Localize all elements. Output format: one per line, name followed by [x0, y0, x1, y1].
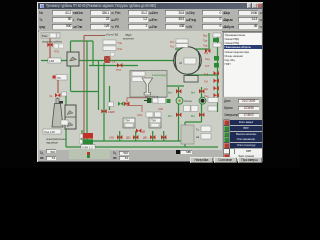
cooling tower — [52, 99, 63, 128]
valve ГПЗ-2 — [117, 63, 122, 68]
pump 2 — [191, 89, 218, 118]
svg-text:обор: обор — [137, 114, 143, 117]
svg-text:Чд: Чд — [49, 94, 53, 98]
svg-text:ПЭН: ПЭН — [151, 120, 157, 123]
svg-text:Овд 148: Овд 148 — [44, 130, 55, 134]
green pipe network — [41, 33, 218, 147]
schematic canvas — [39, 31, 222, 150]
minibox + valve pair — [108, 102, 114, 107]
svg-text:138: 138 — [49, 59, 54, 63]
svg-text:Род: Род — [204, 52, 209, 55]
valve САВ — [117, 135, 122, 140]
parameter panel — [38, 9, 262, 32]
red cross valve — [104, 53, 115, 64]
valve ДВ2 — [133, 135, 138, 140]
Рмс panel top-left — [41, 33, 60, 39]
valve ДВ1 — [150, 135, 155, 140]
valve pair feedwater — [118, 102, 123, 107]
svg-text:Рпв: Рпв — [118, 47, 123, 51]
svg-text:Вкл: Вкл — [191, 115, 196, 118]
svg-text:Вкл: Вкл — [168, 92, 173, 95]
svg-text:Рмс: Рмс — [42, 34, 48, 38]
subpanel with fields + funnel — [130, 71, 167, 98]
svg-text:в атмосферу: в атмосферу — [152, 74, 167, 77]
svg-text:отбор на ПВД: отбор на ПВД — [105, 34, 119, 37]
bottom strip controls — [40, 151, 43, 155]
svg-text:Опд: Опд — [205, 58, 210, 61]
svg-text:САВ: САВ — [109, 137, 114, 140]
svg-text:Отб: Отб — [205, 65, 210, 68]
pink return line — [127, 98, 148, 112]
svg-text:ПС: ПС — [57, 76, 61, 80]
svg-text:включение: включение — [123, 38, 135, 41]
white box on bus — [81, 145, 95, 150]
right column valves — [204, 52, 210, 98]
valve ГПЗ main steam — [47, 43, 52, 48]
double cylinder box — [65, 105, 76, 129]
svg-text:ДВ: ДВ — [142, 131, 146, 134]
ПЭН boxes — [123, 118, 135, 128]
left white box near pumps — [158, 98, 166, 104]
svg-text:подстанции: подстанции — [46, 142, 58, 145]
valve Чд — [55, 93, 60, 98]
svg-text:Вкл: Вкл — [191, 92, 196, 95]
svg-text:Рпп: Рпп — [170, 41, 175, 44]
svg-text:ДВ2: ДВ2 — [126, 137, 131, 140]
svg-text:Тем: Тем — [203, 45, 208, 48]
right list panel — [223, 32, 262, 97]
svg-text:СК: СК — [112, 60, 116, 64]
svg-text:Тдн: Тдн — [203, 40, 208, 43]
HPC cylinder box — [67, 52, 79, 66]
svg-text:Тпп: Тпп — [170, 46, 175, 49]
svg-text:ДВ1: ДВ1 — [143, 137, 148, 140]
title bar — [38, 3, 262, 9]
valve САВР — [101, 109, 106, 114]
date/time fields — [224, 99, 230, 103]
bottom buttons — [190, 157, 213, 163]
svg-text:мощность турбины: мощность турбины — [42, 39, 62, 43]
svg-text:Тпв: Тпв — [118, 41, 123, 45]
svg-text:Вкл: Вкл — [168, 115, 173, 118]
svg-text:Тоб: Тоб — [204, 81, 209, 84]
valve drain — [205, 49, 210, 54]
svg-text:САВР: САВР — [108, 111, 115, 114]
label box bottom-left — [43, 129, 61, 134]
gray box right-bottom — [181, 125, 194, 144]
turbine/generator circle — [174, 47, 202, 82]
svg-text:Тцв: Тцв — [204, 73, 209, 76]
svg-text:об.ном: об.ном — [184, 100, 192, 103]
svg-text:ПЭН: ПЭН — [125, 120, 131, 123]
svg-text:Рдн: Рдн — [203, 35, 208, 38]
legend rows — [224, 120, 229, 125]
svg-text:САВ: САВ — [158, 108, 163, 111]
svg-text:ГПЗ: ГПЗ — [54, 50, 59, 54]
top boxes near circle — [176, 39, 188, 43]
svg-text:ГПЗ: ГПЗ — [116, 68, 121, 72]
window background — [37, 2, 263, 162]
white box 138 — [48, 58, 61, 63]
canvas background — [39, 31, 222, 150]
dark mini valve w/ actuator — [149, 89, 152, 96]
dark mark — [59, 101, 63, 104]
red lines — [50, 36, 105, 142]
valve ДВ — [136, 129, 141, 134]
pump 1 — [168, 89, 198, 118]
svg-text:об: об — [179, 61, 182, 65]
valve drain 2 — [161, 135, 166, 140]
red + green boxes — [80, 134, 83, 138]
